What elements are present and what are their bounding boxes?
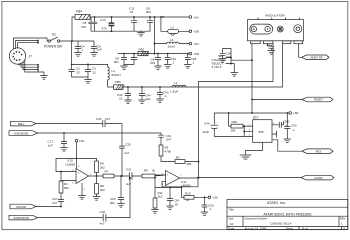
svg-text:3 OR 4: 3 OR 4 <box>212 65 222 69</box>
svg-text:LM358: LM358 <box>66 162 76 166</box>
svg-text:Sheet: Sheet <box>286 226 294 230</box>
svg-text:4u7: 4u7 <box>100 221 105 225</box>
svg-text:C20: C20 <box>100 210 106 214</box>
svg-text:.047: .047 <box>52 201 58 205</box>
svg-text:68k: 68k <box>187 162 192 166</box>
svg-text:+5B: +5B <box>193 30 198 34</box>
svg-text:+5C: +5C <box>213 196 219 200</box>
svg-text:LM358: LM358 <box>181 183 191 187</box>
svg-text:+5D: +5D <box>193 52 199 56</box>
svg-text:C49: C49 <box>204 122 210 126</box>
svg-text:BELL: BELL <box>18 122 25 126</box>
svg-text:DIAGNOSE: DIAGNOSE <box>14 131 28 135</box>
svg-text:RES: RES <box>316 149 322 153</box>
svg-text:C061851-001 A: C061851-001 A <box>270 222 292 226</box>
svg-text:4u7: 4u7 <box>126 182 131 186</box>
svg-text:4u7: 4u7 <box>124 151 129 155</box>
svg-text:56k: 56k <box>64 186 69 190</box>
svg-text:C25: C25 <box>96 117 102 121</box>
svg-text:8 of: 8 of <box>303 226 308 230</box>
svg-text:.001: .001 <box>145 10 151 14</box>
svg-text:-: - <box>167 181 168 185</box>
svg-text:ATARI, Inc.: ATARI, Inc. <box>267 200 286 205</box>
svg-text:6k2: 6k2 <box>100 188 105 192</box>
svg-text:R7: R7 <box>105 170 109 174</box>
svg-text:.1: .1 <box>192 60 195 64</box>
svg-text:+: + <box>78 170 80 174</box>
svg-text:22: 22 <box>93 70 97 74</box>
svg-text:.1: .1 <box>164 94 167 98</box>
svg-text:.001: .001 <box>226 55 232 59</box>
svg-text:Document Number: Document Number <box>245 216 268 220</box>
svg-text:.001: .001 <box>113 60 119 64</box>
svg-text:.1: .1 <box>81 48 84 52</box>
svg-text:REV: REV <box>340 216 346 220</box>
svg-text:1uF: 1uF <box>48 143 53 147</box>
svg-text:FB5: FB5 <box>139 47 145 51</box>
svg-text:Date:: Date: <box>228 226 235 230</box>
svg-text:.1: .1 <box>209 207 212 211</box>
svg-text:R9: R9 <box>144 169 148 173</box>
svg-text:R30: R30 <box>232 120 238 124</box>
svg-text:10uH: 10uH <box>168 45 175 49</box>
svg-text:RESET: RESET <box>314 98 323 102</box>
svg-text:.047: .047 <box>105 117 111 121</box>
svg-text:S1: S1 <box>52 33 56 37</box>
svg-text:C13: C13 <box>100 18 106 22</box>
svg-text:.01: .01 <box>129 10 134 14</box>
svg-text:Title: Title <box>229 208 235 212</box>
svg-text:J7: J7 <box>29 55 33 59</box>
svg-text:L4: L4 <box>170 38 174 42</box>
svg-text:555: 555 <box>258 130 263 134</box>
svg-text:1.5uH: 1.5uH <box>170 90 178 94</box>
svg-text:R12: R12 <box>185 191 191 195</box>
svg-text:L3: L3 <box>170 25 174 29</box>
svg-text:MODULATOR: MODULATOR <box>265 13 285 17</box>
svg-text:C50: C50 <box>291 124 297 128</box>
svg-text:10uF: 10uF <box>203 130 210 134</box>
svg-text:.1: .1 <box>292 128 295 132</box>
svg-text:18k: 18k <box>231 129 236 133</box>
svg-text:470k: 470k <box>165 149 172 153</box>
svg-text:1k: 1k <box>186 198 190 202</box>
svg-text:POWER SW: POWER SW <box>44 45 62 49</box>
svg-text:+5C: +5C <box>193 42 199 46</box>
svg-text:C21: C21 <box>126 167 132 171</box>
svg-text:SOUND: SOUND <box>16 205 26 209</box>
svg-text:2k: 2k <box>152 169 156 173</box>
svg-text:C29: C29 <box>125 142 131 146</box>
svg-text:+5D: +5D <box>293 111 299 115</box>
svg-text:+: + <box>167 173 169 177</box>
svg-text:22: 22 <box>119 96 123 100</box>
svg-text:-: - <box>78 179 79 183</box>
svg-text:FB6: FB6 <box>115 80 121 84</box>
svg-text:R1: R1 <box>176 156 180 160</box>
svg-text:Size: Size <box>229 216 235 220</box>
svg-text:August 14, 1984: August 14, 1984 <box>245 226 267 230</box>
svg-text:EXPANSION: EXPANSION <box>14 216 30 220</box>
svg-text:.1: .1 <box>172 60 175 64</box>
svg-text:AUDIO: AUDIO <box>314 176 323 180</box>
svg-text:U17: U17 <box>253 116 259 120</box>
svg-text:470: 470 <box>102 27 107 31</box>
svg-text:FB4: FB4 <box>76 10 82 14</box>
svg-text:.001: .001 <box>81 25 87 29</box>
svg-text:.047: .047 <box>166 138 172 142</box>
svg-text:22: 22 <box>77 70 81 74</box>
svg-text:.001: .001 <box>145 97 151 101</box>
svg-text:L2: L2 <box>174 81 178 85</box>
svg-text:.001: .001 <box>109 201 115 205</box>
svg-text:18: 18 <box>175 202 179 206</box>
svg-text:2k2: 2k2 <box>158 195 163 199</box>
svg-text:ATARI 800XL WITH FREDDIE: ATARI 800XL WITH FREDDIE <box>263 213 312 217</box>
svg-text:1uF: 1uF <box>97 48 102 52</box>
svg-text:.001: .001 <box>150 61 156 65</box>
svg-text:VIDEO RF: VIDEO RF <box>310 56 323 60</box>
svg-text:+5A: +5A <box>193 15 198 19</box>
svg-text:+5C: +5C <box>79 139 85 143</box>
svg-text:820uH: 820uH <box>112 73 121 77</box>
